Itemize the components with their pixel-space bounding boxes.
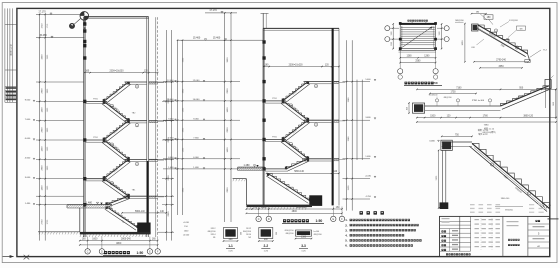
svg-text:1-1: 1-1 [228,244,233,248]
svg-text:7.660: 7.660 [193,138,199,140]
title block faint top rows [442,218,450,219]
svg-text:4.660: 4.660 [25,158,31,160]
section1 junction labels [135,85,138,88]
section2 junction labels [314,84,317,87]
svg-text:4.: 4. [345,234,348,238]
svg-text:Φ8@200: Φ8@200 [285,232,294,235]
svg-text:PTB1: PTB1 [93,137,98,139]
section1 flight 3 [104,121,129,140]
section1 floor slab hatch [149,82,156,84]
title block right column [528,223,550,225]
svg-text:L2: L2 [111,106,113,108]
svg-text:5.: 5. [345,239,348,243]
svg-text:15.460: 15.460 [39,34,47,37]
svg-text:15.460: 15.460 [193,37,201,40]
section1 lower flight dimension [122,212,166,214]
section1 left landings [85,100,106,102]
lower detail left block [441,140,452,150]
section1 flight 1 [104,82,129,101]
svg-text:6.: 6. [345,244,348,248]
svg-text:3400: 3400 [42,54,44,60]
fold mark arrow [3,256,14,258]
svg-text:PTB1 h=100: PTB1 h=100 [472,100,485,102]
plan detail axis bubbles [398,69,403,74]
section2 right wall [332,28,334,205]
svg-text:1600: 1600 [92,239,98,241]
svg-text:9.060: 9.060 [168,118,174,120]
svg-text:1400: 1400 [42,185,44,191]
svg-text:Φ12@200: Φ12@200 [509,19,518,22]
section2 floor slabs [334,81,339,83]
svg-text:Φ8@200: Φ8@200 [443,96,452,99]
svg-text:2560: 2560 [415,61,421,63]
svg-text:PTB1: PTB1 [93,99,98,101]
svg-text:1400: 1400 [42,146,44,152]
svg-text:9.060: 9.060 [25,100,31,102]
title block outer [440,216,550,256]
flight detail top block [472,24,478,31]
svg-text:10.660: 10.660 [193,99,200,101]
svg-text:-0.030: -0.030 [365,176,372,178]
svg-text:-1.250: -1.250 [365,196,372,198]
svg-text:17.170: 17.170 [38,11,46,14]
svg-text:1.480: 1.480 [25,203,31,205]
svg-text:1650: 1650 [462,40,464,46]
section1 floor slabs [149,81,158,83]
svg-text:3.480: 3.480 [365,117,371,119]
section2 left dimension chains [177,40,179,215]
section2 flight 3 [283,120,308,139]
svg-text:L2: L2 [290,144,292,146]
section1 exterior grade [38,231,80,233]
svg-text:2-2: 2-2 [263,244,268,248]
svg-text:C: C [258,218,260,221]
svg-text:5800-140: 5800-140 [135,211,145,213]
section2 axis bubbles [258,207,260,217]
lower detail top slab [442,141,472,143]
lower detail support wall [441,150,443,205]
section2 entrance canopy slab [238,166,265,168]
binding mark [548,218,559,220]
section1 roof slab [84,16,149,18]
svg-text:3353: 3353 [498,66,504,68]
svg-text:1400: 1400 [42,107,44,113]
svg-text:2800: 2800 [227,127,229,133]
svg-text:Φ8@200: Φ8@200 [243,230,252,233]
svg-text:1500: 1500 [301,237,307,239]
section2 level 15.460 [177,39,263,41]
fold mark cross [24,255,30,260]
svg-text:1.480: 1.480 [193,167,199,169]
plan detail right vdim [441,24,443,49]
svg-text:450: 450 [406,107,408,110]
svg-text:3800-100: 3800-100 [501,198,510,200]
svg-text:2300=10x230: 2300=10x230 [289,64,304,66]
plan detail right grid bubbles [437,27,444,29]
section1 section cut bubble [80,12,89,21]
section1 bottom dimension tier2 [80,244,158,246]
section2 ground hatch [246,207,247,210]
section2 floor slab hatch [334,82,339,84]
svg-text:7.660: 7.660 [25,119,31,121]
svg-text:15.460: 15.460 [213,37,221,40]
svg-text:M8@200: M8@200 [455,20,464,22]
section2 ground flight [268,174,310,201]
svg-text:1300: 1300 [391,32,393,36]
svg-text:±0.000: ±0.000 [183,235,190,237]
svg-text:6.060: 6.060 [193,157,199,159]
svg-text:1400: 1400 [227,147,229,153]
notes header [360,211,363,214]
svg-text:1650: 1650 [553,102,555,106]
svg-text:3.060: 3.060 [25,177,31,179]
section2 parapet [262,13,264,28]
svg-text:2800: 2800 [227,88,229,94]
svg-text:2800-240: 2800-240 [121,239,131,241]
section2 bottom dimension tier2 [246,212,342,214]
svg-text:2800-240: 2800-240 [296,207,306,209]
section2 title [283,219,286,222]
plan detail slab outline [400,23,435,48]
plan detail bottom dimension [399,49,401,62]
section1 ground flight [107,207,138,228]
flight detail left vertical dimension [464,24,466,62]
svg-text:1400: 1400 [227,107,229,113]
section1 top dimension line [85,72,158,74]
svg-text:1500: 1500 [430,116,436,118]
middle chain level lines [343,81,371,83]
svg-text:2800: 2800 [42,127,44,133]
section1 left dimension chain [39,14,41,241]
section1 outer wall [155,17,157,237]
svg-text:Φ10@150: Φ10@150 [284,229,294,232]
svg-text:L2: L2 [315,125,317,127]
svg-text:1780: 1780 [483,116,489,118]
svg-text:6.060: 6.060 [25,138,31,140]
svg-text:300: 300 [276,232,278,235]
section2 flight 4 [283,140,308,159]
svg-text:L2: L2 [136,164,138,166]
title block middle faint columns [475,219,479,220]
landing detail top dimension [417,88,556,90]
landing detail slab [425,105,501,107]
section2 level lines [163,81,240,83]
section2 left landings [265,100,286,102]
section1 right wall [146,17,148,237]
section1 entrance canopy slab [67,204,112,206]
section2 entrance flight [286,159,308,169]
section2 lower flight dimension [267,172,340,174]
section2 flight 2 [283,101,308,120]
svg-text:L2: L2 [290,106,292,108]
lower detail top dimension [442,135,472,137]
svg-text:h=100: h=100 [314,231,321,233]
plan detail tread lines [401,27,435,29]
flight detail stair flight [478,25,528,54]
svg-text:1:50: 1:50 [137,251,144,255]
section2 wall beam marks [262,40,265,43]
section2 bottom dimension tier1 [246,208,342,210]
middle dimension chain B [356,80,358,160]
plan detail walk line [403,27,433,47]
svg-text:1.480: 1.480 [168,167,174,169]
svg-text:PTB1: PTB1 [272,137,277,139]
svg-text:Φ8@200: Φ8@200 [314,233,323,236]
flight detail extra leaders [500,22,509,28]
svg-text:L2: L2 [136,125,138,127]
svg-text:-0.030: -0.030 [183,222,190,224]
svg-text:2800: 2800 [227,187,229,193]
section1 left wall [83,17,85,237]
flight detail right leader [530,50,542,58]
svg-text:PTB1: PTB1 [272,98,277,100]
svg-text:7.660: 7.660 [168,138,174,140]
landing detail up flight [501,86,550,106]
section1 right landings [125,81,147,83]
svg-text:9.060: 9.060 [193,118,199,120]
svg-text:3400: 3400 [227,57,229,63]
plan detail top beam [400,23,435,25]
landing detail left block [413,103,425,113]
flight detail bottom dimensions [474,61,528,63]
svg-text:2800: 2800 [42,88,44,94]
svg-text:2790-240: 2790-240 [496,60,506,62]
section1 axis bubbles [87,237,89,249]
svg-text:1.: 1. [345,218,348,222]
svg-text:1260: 1260 [391,42,393,46]
svg-text:1280: 1280 [424,56,430,58]
title block left labels [442,230,444,232]
flight detail rebar labels [484,15,493,19]
section2 ground slab [246,205,312,208]
svg-text:C: C [87,250,89,253]
svg-text:3.: 3. [345,228,348,232]
svg-text:4800: 4800 [292,211,298,213]
landing detail flight top block [545,80,551,89]
svg-text:L2: L2 [315,86,317,88]
svg-text:10.660: 10.660 [167,99,174,101]
svg-text:L2: L2 [111,145,113,147]
landing detail bottom dimensions [417,117,556,119]
section2 right landings [304,81,332,83]
section1 flight 5 [104,159,129,178]
plan detail left vdim [392,24,394,49]
svg-text:Φ8@200: Φ8@200 [207,230,216,233]
svg-text:2800: 2800 [42,165,44,171]
svg-text:3800-120: 3800-120 [523,116,533,118]
svg-text:图 纸 目 录: 图 纸 目 录 [9,44,13,56]
svg-text:1:50: 1:50 [316,219,323,223]
section2 top dimension line [264,66,339,68]
svg-text:7380: 7380 [484,125,490,127]
section1 level 17.170 [36,13,85,15]
svg-text:7180: 7180 [456,87,462,89]
svg-text:2.: 2. [345,223,348,227]
svg-text:D: D [268,218,270,221]
svg-text:Φ8@200: Φ8@200 [505,209,513,212]
section1 level 15.460 [36,37,85,39]
section1 level lines [36,81,84,83]
strip table entries [6,87,17,89]
section1 title [104,251,107,254]
svg-text:2300=10x230: 2300=10x230 [110,71,125,73]
svg-text:2800: 2800 [168,175,170,181]
section2 exterior grade [233,178,247,180]
section2 flight 1 [283,82,308,101]
plan detail corner columns [399,22,402,25]
section2 left wall [262,28,264,207]
section1 wall beam marks [83,22,86,25]
svg-text:1710: 1710 [42,23,44,29]
middle dimension chain A [346,40,348,210]
svg-text:12.060: 12.060 [167,80,174,82]
lower detail flight [472,143,550,208]
lower detail wall vertical dim [438,150,440,208]
section1 ground beam block [137,223,150,234]
svg-text:2800: 2800 [168,211,170,217]
approval stamp marks [470,204,475,205]
plan detail left grid bubbles [390,27,399,29]
svg-text:L2: L2 [111,184,113,186]
svg-text:1300: 1300 [439,32,441,36]
svg-text:17.170: 17.170 [209,9,217,12]
svg-text:1750: 1750 [450,91,456,93]
section1 wall rebar dashes [83,22,85,23]
section2 level 17.170 [205,12,237,14]
svg-text:5.460: 5.460 [365,79,371,81]
svg-text:1.480: 1.480 [86,202,93,205]
svg-text:1.480: 1.480 [365,156,371,158]
svg-text:150: 150 [548,205,551,207]
section2 entrance slab [265,168,287,170]
svg-text:1280: 1280 [406,56,412,58]
svg-text:5800-140: 5800-140 [294,171,304,173]
svg-text:12.060: 12.060 [193,80,200,82]
title block verticals [459,216,461,251]
svg-text:6.060: 6.060 [168,157,174,159]
left title strip [4,8,6,102]
svg-text:2750: 2750 [42,219,44,225]
landing detail left mini dim [408,103,410,113]
title block company row [446,253,448,255]
section2 ground beam block [309,195,322,206]
title block project name [508,239,510,241]
plan detail lower slab edge [399,50,436,52]
section1 flight 2 [104,101,129,120]
section1 bottom dimension tier1 [80,240,158,242]
title block left rows [440,221,471,223]
section1 right dimension chain [165,30,167,241]
section2 roof slab [263,27,339,29]
section1 ground slab [80,232,151,235]
svg-text:1:50: 1:50 [432,81,438,85]
svg-text:1.480: 1.480 [244,164,251,167]
svg-text:3-3: 3-3 [301,244,306,248]
svg-text:Φ10: Φ10 [471,46,475,49]
svg-text:3.480: 3.480 [429,140,435,142]
landing detail right vertical dim [555,89,557,117]
section1 ground hatch [80,235,81,238]
plan detail title [405,82,408,85]
section1 flight 4 [104,140,129,159]
svg-text:L2: L2 [136,87,138,89]
svg-text:D: D [101,250,103,253]
section1 flight 6 [104,179,129,197]
section1 entrance flight [107,196,129,205]
svg-text:4800: 4800 [116,243,122,245]
